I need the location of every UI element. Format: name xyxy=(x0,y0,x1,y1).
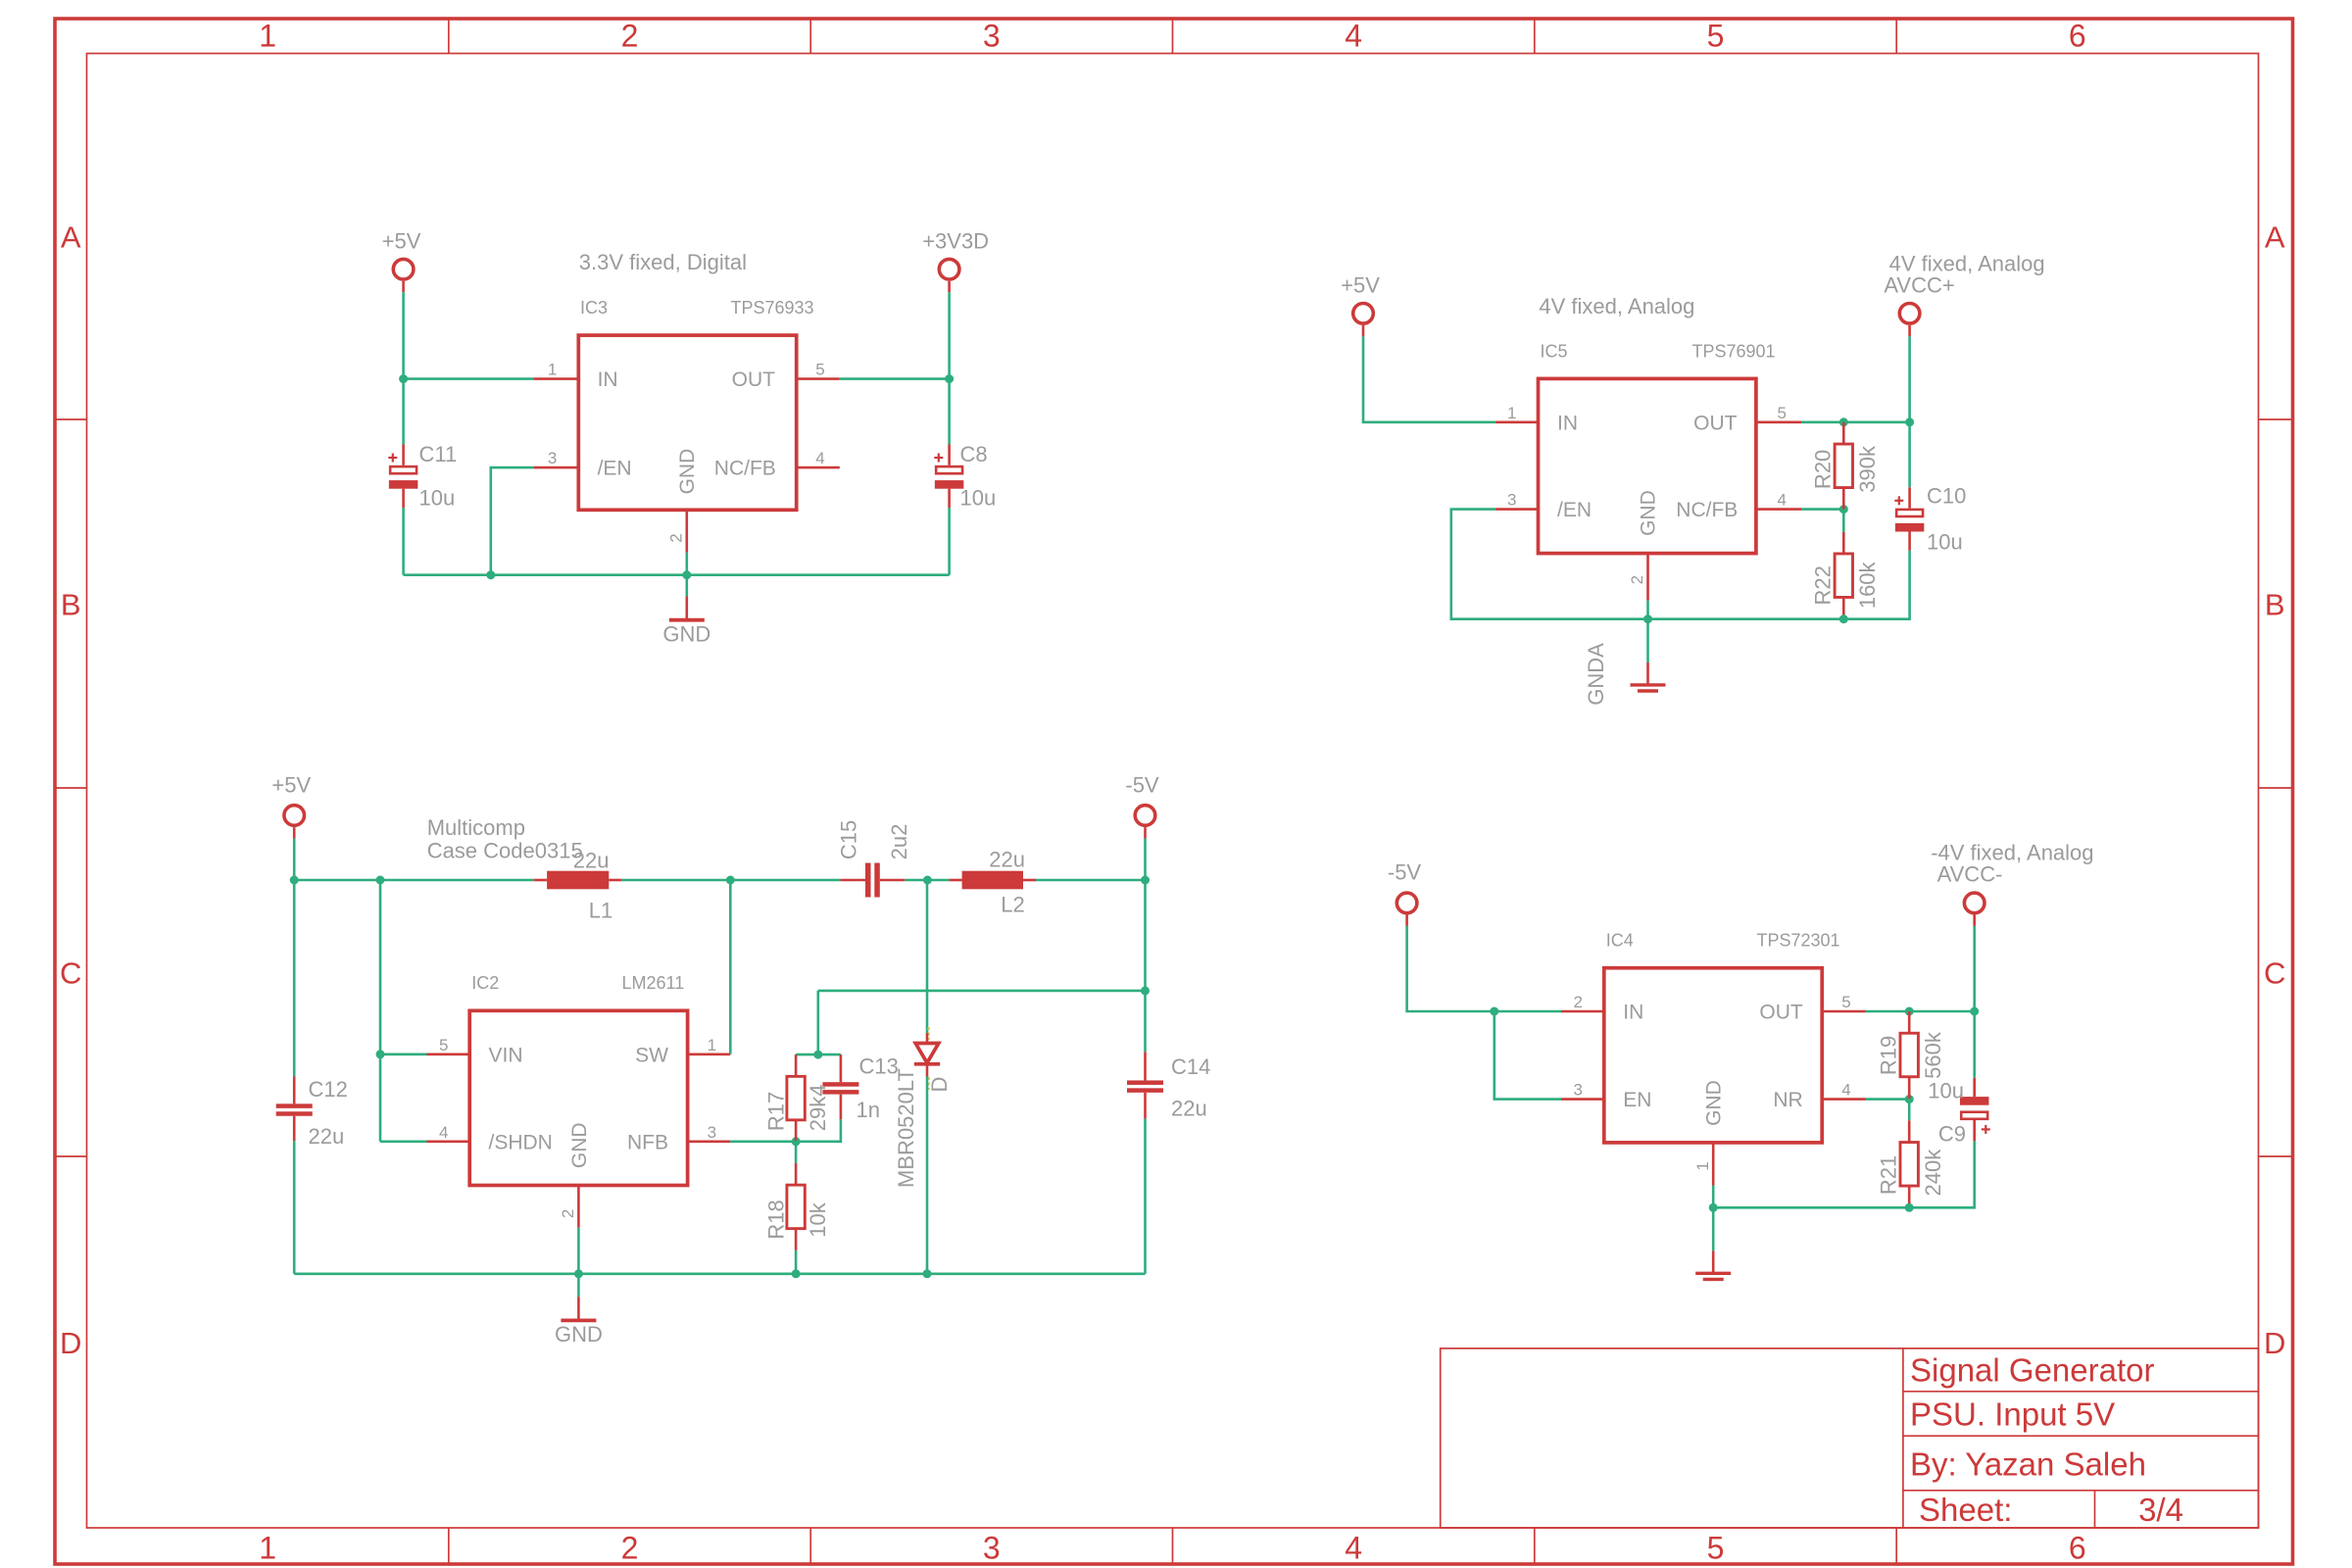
value 2u2 xyxy=(887,824,911,860)
wire branch to IN pin (IC4) xyxy=(1494,1010,1561,1013)
svg-text:1: 1 xyxy=(708,1036,716,1054)
svg-text:A: A xyxy=(2265,220,2285,255)
svg-text:MBR0520LT: MBR0520LT xyxy=(894,1068,918,1188)
resistor R21 xyxy=(1908,1120,1911,1142)
wire VIN branch vertical xyxy=(379,880,382,1142)
wire SW up to top rail xyxy=(729,880,732,1054)
svg-text:3: 3 xyxy=(1507,491,1516,510)
pin 3 stub /EN xyxy=(534,466,579,469)
junction GND bottom rail (block 4) xyxy=(1709,1203,1718,1212)
pin 1 stub IN xyxy=(534,377,579,380)
IC4 box xyxy=(1604,968,1822,1143)
power flag +5V (block 2) xyxy=(1353,304,1374,324)
bottom ground rail (block 3) xyxy=(294,1273,1145,1276)
mid feedback wire xyxy=(818,990,1146,993)
svg-text:/EN: /EN xyxy=(598,458,632,480)
junction top rail branch to VIN xyxy=(376,876,385,885)
wire AVCC+ down to OUT row xyxy=(1908,336,1911,422)
plus sign C11 xyxy=(388,457,397,459)
svg-text:LM2611: LM2611 xyxy=(622,973,685,993)
svg-text:GNDA: GNDA xyxy=(1584,643,1608,706)
svg-text:Signal Generator: Signal Generator xyxy=(1910,1352,2154,1389)
wire C12 top xyxy=(293,880,296,1077)
svg-text:10u: 10u xyxy=(960,486,997,511)
pin 1 stub SW xyxy=(688,1053,731,1056)
junction GND rail (block 2) xyxy=(1643,614,1652,623)
wire C14 to bottom rail xyxy=(1144,1119,1147,1274)
wire GND pin to bottom rail xyxy=(577,1228,580,1274)
svg-text:1: 1 xyxy=(1693,1161,1712,1170)
junction +5V / top rail / C12 xyxy=(290,876,299,885)
svg-text:C13: C13 xyxy=(859,1054,899,1079)
ground symbol GND (block 3) xyxy=(577,1297,580,1320)
bottom rail wire (block 4) xyxy=(1713,1206,1909,1209)
pin 5 stub VIN xyxy=(427,1053,470,1056)
svg-text:By: Yazan Saleh: By: Yazan Saleh xyxy=(1910,1446,2146,1483)
ground symbol GNDA xyxy=(1646,662,1649,685)
svg-text:22u: 22u xyxy=(1171,1096,1207,1120)
power flag +5V (block 1) xyxy=(393,259,414,279)
wire +5V down to top rail xyxy=(293,839,296,881)
wire C10 to ground rail xyxy=(1843,551,1909,619)
svg-text:C: C xyxy=(60,955,81,990)
wire GND pin to ground rail xyxy=(685,553,688,575)
svg-text:6: 6 xyxy=(2069,19,2086,54)
wire R18 to bottom rail xyxy=(795,1250,798,1274)
capacitor C10 xyxy=(1908,487,1911,508)
svg-text:VIN: VIN xyxy=(489,1044,523,1066)
svg-text:AVCC-: AVCC- xyxy=(1937,861,2003,886)
wire AVCC- down to OUT row xyxy=(1973,926,1976,1011)
wire NC/FB to divider node xyxy=(1801,508,1843,511)
svg-text:1: 1 xyxy=(259,1531,276,1566)
inductor L2 xyxy=(950,879,962,882)
svg-text:TPS72301: TPS72301 xyxy=(1757,931,1840,951)
wire L1 to C15 xyxy=(621,879,840,882)
svg-text:10u: 10u xyxy=(1927,530,1963,555)
svg-text:10u: 10u xyxy=(1928,1079,1964,1103)
wire C9 to bottom rail xyxy=(1909,1141,1975,1207)
pin 1 stub IN (IC5) xyxy=(1495,420,1539,423)
svg-text:IN: IN xyxy=(1623,1002,1643,1024)
svg-text:5: 5 xyxy=(1707,1531,1725,1566)
svg-text:TPS76933: TPS76933 xyxy=(731,298,814,318)
svg-text:IC3: IC3 xyxy=(580,298,608,318)
pin name GND (IC2) xyxy=(568,1122,591,1168)
pin number 1 (IC4) xyxy=(1693,1161,1712,1170)
wire C13 bottom to NFB node xyxy=(796,1119,841,1142)
pin number 2 (IC2) xyxy=(559,1209,577,1218)
svg-text:5: 5 xyxy=(1778,404,1787,422)
label R21 xyxy=(1876,1155,1900,1195)
junction OUT / +3V3D node xyxy=(945,374,954,383)
power flag -5V (block 4) xyxy=(1396,893,1417,913)
pin number 2 (IC5) xyxy=(1628,575,1646,584)
svg-text:C15: C15 xyxy=(837,820,861,859)
pin 1 stub GND (IC4) xyxy=(1712,1143,1715,1186)
inductor L1 xyxy=(534,879,547,882)
label C15 xyxy=(837,820,861,859)
svg-text:GND: GND xyxy=(555,1322,603,1347)
svg-text:1: 1 xyxy=(1507,404,1516,422)
junction VIN branch xyxy=(376,1050,385,1058)
wire NR to divider node xyxy=(1866,1098,1910,1101)
value 10k xyxy=(806,1201,830,1237)
svg-text:22u: 22u xyxy=(309,1124,345,1149)
ground symbol earth (block 4) xyxy=(1712,1250,1715,1273)
svg-text:R22: R22 xyxy=(1811,565,1836,605)
plus sign C10 xyxy=(1894,500,1903,502)
svg-text:GND: GND xyxy=(676,449,699,495)
value 160k xyxy=(1855,561,1880,609)
junction /EN on ground rail xyxy=(486,570,495,579)
label R17 xyxy=(764,1092,789,1131)
svg-text:NC/FB: NC/FB xyxy=(1676,499,1738,521)
diode D MBR0520LT xyxy=(926,1033,929,1044)
wire OUT to AVCC+ node xyxy=(1801,420,1910,423)
junction OUT / R20 xyxy=(1839,417,1848,426)
svg-text:OUT: OUT xyxy=(732,368,776,391)
wire -5V flag down xyxy=(1144,839,1147,881)
capacitor C8 xyxy=(948,445,951,465)
value 29k4 xyxy=(806,1085,830,1132)
svg-text:3: 3 xyxy=(708,1123,716,1142)
svg-text:IC2: IC2 xyxy=(471,973,499,993)
ground label GNDA xyxy=(1584,643,1608,706)
pin 4 stub NR (IC4) xyxy=(1822,1098,1865,1101)
wire +5V down to C11 xyxy=(402,292,405,444)
svg-text:+5V: +5V xyxy=(1341,272,1380,297)
pin 4 stub /SHDN xyxy=(427,1141,470,1144)
svg-text:/EN: /EN xyxy=(1557,499,1592,521)
svg-text:22u: 22u xyxy=(989,847,1025,871)
svg-text:Multicomp: Multicomp xyxy=(427,815,525,840)
pin name GND (IC4) xyxy=(1703,1080,1726,1126)
wire branch down to EN xyxy=(1494,1011,1561,1100)
wire diode node to L2 xyxy=(927,879,949,882)
svg-text:3/4: 3/4 xyxy=(2138,1492,2183,1528)
junction divider node FB xyxy=(1839,505,1848,514)
svg-text:EN: EN xyxy=(1623,1089,1651,1111)
wire +5V to IN pin (IC5) xyxy=(1363,336,1495,422)
capacitor C15 xyxy=(840,879,865,882)
svg-text:D: D xyxy=(2264,1326,2285,1360)
label MBR0520LT xyxy=(894,1068,918,1188)
wire OUT to +3V3D xyxy=(840,377,950,380)
value 560k xyxy=(1921,1031,1945,1079)
svg-text:4: 4 xyxy=(815,449,824,467)
svg-text:D: D xyxy=(927,1077,952,1093)
svg-text:B: B xyxy=(61,587,81,621)
frame row ticks left xyxy=(55,419,87,1156)
svg-text:R17: R17 xyxy=(764,1092,789,1131)
pin 5 stub OUT xyxy=(796,377,840,380)
svg-text:R21: R21 xyxy=(1876,1155,1900,1195)
svg-text:5: 5 xyxy=(815,361,824,379)
svg-text:-5V: -5V xyxy=(1388,859,1422,884)
power flag AVCC+ xyxy=(1899,304,1920,324)
svg-text:560k: 560k xyxy=(1921,1031,1945,1079)
resistor R22 xyxy=(1842,532,1845,554)
wire /EN to analog ground rail xyxy=(1451,510,1648,619)
pin 5 stub OUT (IC5) xyxy=(1758,420,1802,423)
svg-text:2u2: 2u2 xyxy=(887,824,911,860)
wire GND pin to rail (IC5) xyxy=(1646,601,1649,619)
resistor R18 xyxy=(795,1163,798,1185)
svg-text:10u: 10u xyxy=(419,486,456,511)
junction GND bottom rail (block 3) xyxy=(574,1269,583,1278)
svg-text:NC/FB: NC/FB xyxy=(714,458,776,480)
junction R22 on ground rail xyxy=(1839,614,1848,623)
frame row ticks right xyxy=(2259,419,2292,1156)
wire -5V rail down to C14 xyxy=(1144,880,1147,1052)
svg-text:6: 6 xyxy=(2069,1531,2086,1566)
svg-text:AVCC+: AVCC+ xyxy=(1884,273,1954,298)
power flag +5V (block 3) xyxy=(284,806,305,826)
wire C11 to ground rail xyxy=(402,508,405,575)
svg-text:Sheet:: Sheet: xyxy=(1919,1492,2012,1528)
wire +3V3D down to OUT node xyxy=(948,292,951,378)
junction NFB divider node xyxy=(792,1137,801,1146)
wire NFB to divider node xyxy=(730,1141,796,1144)
title block outline xyxy=(1441,1348,2259,1528)
junction IN/EN branch (block 4) xyxy=(1490,1007,1498,1016)
svg-text:OUT: OUT xyxy=(1759,1002,1803,1024)
svg-text:GND: GND xyxy=(1703,1080,1726,1126)
svg-text:IC4: IC4 xyxy=(1606,931,1634,951)
frame column ticks bottom xyxy=(449,1528,1896,1564)
capacitor C12 xyxy=(293,1077,296,1104)
svg-text:C10: C10 xyxy=(1927,484,1966,509)
IC3 box xyxy=(578,335,796,510)
wire L2 to -5V rail xyxy=(1036,879,1146,882)
pin name GND (IC5) xyxy=(1638,490,1660,536)
junction OUT / AVCC- xyxy=(1970,1007,1979,1016)
power flag +3V3D xyxy=(939,259,959,279)
svg-text:IN: IN xyxy=(1557,412,1578,434)
wire ground rail to GND symbol xyxy=(685,575,688,597)
svg-text:+5V: +5V xyxy=(271,772,311,797)
svg-text:A: A xyxy=(61,220,81,255)
svg-text:Case Code0315: Case Code0315 xyxy=(427,839,583,863)
wire +3V3D node to C8 xyxy=(948,379,951,445)
svg-text:D: D xyxy=(60,1326,81,1360)
svg-text:2: 2 xyxy=(1628,575,1646,584)
wire C12 to bottom rail xyxy=(293,1141,296,1274)
wire rail down to earth symbol (block 4) xyxy=(1712,1207,1715,1250)
svg-text:4: 4 xyxy=(1841,1081,1850,1100)
resistor R19 xyxy=(1908,1011,1911,1033)
power flag AVCC- xyxy=(1964,893,1984,913)
label R22 xyxy=(1811,565,1836,605)
svg-text:3: 3 xyxy=(983,19,1001,54)
svg-text:-5V: -5V xyxy=(1125,772,1159,797)
svg-text:3: 3 xyxy=(1574,1081,1583,1100)
wire diode node down to diode xyxy=(926,880,929,1033)
svg-text:1: 1 xyxy=(259,19,276,54)
wire GND pin to bottom rail (IC4) xyxy=(1712,1186,1715,1208)
junction +5V / IN node xyxy=(399,374,408,383)
junction diode bottom rail xyxy=(923,1269,932,1278)
junction OUT / R19 xyxy=(1905,1007,1914,1016)
svg-text:C: C xyxy=(2264,955,2285,990)
svg-text:C14: C14 xyxy=(1171,1054,1210,1079)
svg-text:B: B xyxy=(2265,587,2285,621)
svg-text:R20: R20 xyxy=(1811,450,1836,489)
svg-text:2: 2 xyxy=(666,533,685,542)
capacitor C13 xyxy=(840,1054,843,1082)
svg-text:4: 4 xyxy=(1778,491,1787,510)
wire +5V node to IN pin xyxy=(404,377,534,380)
power flag -5V (block 3) xyxy=(1135,806,1155,826)
title block sheet cell divider xyxy=(2094,1491,2096,1528)
wire C15 to diode node xyxy=(905,879,927,882)
svg-text:GND: GND xyxy=(568,1122,591,1168)
svg-text:5: 5 xyxy=(1841,993,1850,1011)
label R18 xyxy=(764,1200,789,1239)
capacitor C9 xyxy=(1973,1078,1976,1097)
pin 4 stub NC/FB xyxy=(796,466,840,469)
svg-text:C9: C9 xyxy=(1938,1122,1966,1147)
resistor R20 xyxy=(1842,422,1845,444)
svg-text:+5V: +5V xyxy=(382,228,421,253)
svg-text:2: 2 xyxy=(621,19,639,54)
svg-text:2: 2 xyxy=(621,1531,639,1566)
resistor R17 xyxy=(795,1054,798,1076)
svg-text:IC5: IC5 xyxy=(1541,341,1568,361)
svg-text:NFB: NFB xyxy=(627,1131,668,1153)
label R20 xyxy=(1811,450,1836,489)
svg-text:R18: R18 xyxy=(764,1200,789,1239)
wire R17 top node xyxy=(796,1053,841,1056)
wire R17 node up to mid wire xyxy=(816,991,819,1054)
svg-text:4: 4 xyxy=(1345,1531,1362,1566)
pin 5 stub OUT (IC4) xyxy=(1822,1010,1865,1013)
wire NR node to R21 xyxy=(1908,1100,1911,1121)
junction mid wire on -5V rail xyxy=(1141,986,1150,995)
pin 2 stub IN (IC4) xyxy=(1561,1010,1604,1013)
wire -5V to IN branch xyxy=(1407,926,1494,1011)
svg-text:390k: 390k xyxy=(1855,445,1880,493)
svg-text:R19: R19 xyxy=(1876,1036,1900,1075)
label R19 xyxy=(1876,1036,1900,1075)
junction OUT / AVCC+ xyxy=(1905,417,1914,426)
junction R21 bottom rail xyxy=(1905,1203,1914,1212)
frame column ticks top xyxy=(449,19,1896,54)
pin 2 stub GND (IC5) xyxy=(1646,554,1649,601)
wire branch to VIN pin xyxy=(380,1053,427,1056)
analog ground rail wire (block 2) xyxy=(1648,617,1844,620)
svg-text:160k: 160k xyxy=(1855,561,1880,609)
pin name GND (IC3) xyxy=(676,449,699,495)
svg-text:C12: C12 xyxy=(309,1077,348,1102)
wire /EN to ground rail xyxy=(491,467,534,575)
wire NFB node down to R18 xyxy=(795,1142,798,1163)
junction -5V rail top xyxy=(1141,876,1150,885)
pin 3 stub NFB xyxy=(688,1141,731,1144)
junction NR divider node xyxy=(1905,1095,1914,1103)
pin number 2 (IC3) xyxy=(666,533,685,542)
svg-text:L2: L2 xyxy=(1001,893,1024,917)
junction SW on top rail xyxy=(726,876,735,885)
svg-text:NR: NR xyxy=(1773,1089,1802,1111)
pin 4 stub NC/FB (IC5) xyxy=(1758,508,1802,511)
svg-text:PSU. Input 5V: PSU. Input 5V xyxy=(1910,1396,2115,1433)
wire C8 to ground rail xyxy=(948,508,951,575)
IC5 box xyxy=(1539,378,1756,553)
IC2 box xyxy=(469,1010,687,1185)
wire AVCC+ node down to C10 xyxy=(1908,422,1911,488)
svg-text:10k: 10k xyxy=(806,1201,830,1237)
pin 3 stub /EN (IC5) xyxy=(1495,508,1539,511)
pin 3 stub EN (IC4) xyxy=(1561,1098,1604,1101)
svg-text:240k: 240k xyxy=(1921,1149,1945,1197)
wire bottom rail to GND symbol (block 3) xyxy=(577,1274,580,1297)
svg-text:4: 4 xyxy=(1345,19,1362,54)
pin 2 stub GND (IC3) xyxy=(685,510,688,552)
pin mark diode anode xyxy=(927,1027,929,1040)
title block divider vertical xyxy=(1902,1348,1904,1528)
junction R18 bottom rail xyxy=(792,1269,801,1278)
pin 2 stub GND (IC2) xyxy=(577,1186,580,1228)
svg-text:SW: SW xyxy=(635,1044,668,1066)
svg-text:4V fixed, Analog: 4V fixed, Analog xyxy=(1539,294,1694,318)
svg-text:2: 2 xyxy=(559,1209,577,1218)
svg-text:2: 2 xyxy=(1574,993,1583,1011)
wire top rail to L1 xyxy=(294,879,534,882)
svg-text:C11: C11 xyxy=(419,442,458,466)
plus sign C9 xyxy=(1982,1128,1990,1130)
svg-text:5: 5 xyxy=(439,1036,448,1054)
label D xyxy=(927,1077,952,1093)
svg-text:L1: L1 xyxy=(589,899,612,923)
svg-text:TPS76901: TPS76901 xyxy=(1692,341,1776,361)
capacitor C11 xyxy=(402,445,405,465)
wire FB node to R22 xyxy=(1842,510,1845,532)
wire diode to bottom rail xyxy=(926,1077,929,1274)
pin mark diode cathode xyxy=(927,1077,929,1090)
wire branch to /SHDN pin xyxy=(380,1141,427,1144)
svg-text:GND: GND xyxy=(662,622,710,647)
svg-text:5: 5 xyxy=(1707,19,1725,54)
ground rail wire (block 1) xyxy=(404,573,950,576)
svg-text:3: 3 xyxy=(983,1531,1001,1566)
wire rail down to GNDA symbol xyxy=(1646,619,1649,662)
svg-text:GND: GND xyxy=(1638,490,1660,536)
wire AVCC- node down to C9 xyxy=(1973,1011,1976,1078)
svg-text:22u: 22u xyxy=(573,849,610,873)
svg-text:OUT: OUT xyxy=(1693,412,1738,434)
plus sign C8 xyxy=(934,457,943,459)
value 240k xyxy=(1921,1149,1945,1197)
junction R17 top node xyxy=(813,1051,822,1059)
ground symbol GND (block 1) xyxy=(685,597,688,620)
svg-text:C8: C8 xyxy=(960,442,988,466)
wire OUT to AVCC- node xyxy=(1866,1010,1975,1013)
svg-text:+3V3D: +3V3D xyxy=(922,228,989,253)
svg-text:1n: 1n xyxy=(857,1098,880,1122)
capacitor C14 xyxy=(1144,1052,1147,1080)
value 390k xyxy=(1855,445,1880,493)
junction diode node top xyxy=(923,876,932,885)
title block row lines xyxy=(1903,1392,2259,1491)
svg-text:/SHDN: /SHDN xyxy=(489,1131,553,1153)
svg-text:4: 4 xyxy=(439,1123,448,1142)
junction GND on ground rail xyxy=(682,570,691,579)
svg-text:1: 1 xyxy=(548,361,557,379)
svg-text:IN: IN xyxy=(598,368,618,391)
svg-text:3: 3 xyxy=(548,449,557,467)
